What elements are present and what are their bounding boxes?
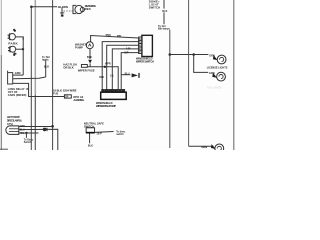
lamp L4 license light 1 (217, 55, 226, 64)
wire: dashed lead to marker lamp (64, 10, 73, 12)
svg-text:DIRECT. LAMPS &: DIRECT. LAMPS & (7, 118, 22, 122)
wire: riser elbow to connector block (13, 74, 23, 76)
lamp L2 park lamp upper-left (13, 29, 16, 32)
lamp L5 license light 2 (217, 72, 226, 81)
svg-text:BLK: BLK (87, 56, 92, 59)
svg-text:BLU: BLU (125, 72, 130, 75)
fuse F1 (81, 65, 87, 68)
svg-text:1B: 1B (26, 89, 29, 91)
svg-text:WIPER SWITCH: WIPER SWITCH (136, 59, 154, 63)
terminal arrow into fuse wire (88, 60, 92, 64)
arrow to washer pump circuit (132, 73, 138, 77)
wire: dome switch drop upper (163, 0, 165, 9)
wire: tail light riser (45, 60, 47, 77)
wire: top feed horizontal (31, 6, 57, 8)
lamp L1 marker lamp (75, 5, 83, 13)
wire: drop to lamp 2 (194, 55, 209, 73)
node: junction dot top feed (30, 6, 33, 9)
wire w3 short (19, 132, 39, 134)
wire: dome switch drop lower (163, 12, 165, 24)
wire: washer feed top with slope (91, 36, 139, 42)
wire: L2 to riser (15, 37, 23, 40)
wire: NSS to direc switch (95, 131, 114, 134)
wire: right riser R2 (188, 0, 190, 146)
wire w2 with splice blob and elbow down (19, 129, 58, 150)
svg-text:LICENSE LIGHTS: LICENSE LIGHTS (207, 66, 228, 69)
wire: gray harness vertical (34, 0, 36, 95)
wire: L3 to riser (16, 48, 24, 50)
pin4 wire (112, 49, 138, 90)
svg-text:LPS): LPS) (7, 122, 13, 126)
svg-text:BLK: BLK (99, 76, 104, 79)
splice S1: drop with cross (61, 7, 63, 14)
svg-text:PPL: PPL (117, 35, 122, 38)
pump connector body (101, 92, 127, 99)
node: dot fuse wire junction (104, 66, 106, 68)
svg-text:BLK: BLK (162, 10, 167, 13)
svg-text:YEL: YEL (20, 132, 25, 135)
left page border (0, 0, 2, 55)
connector bracket of marker lamp (73, 5, 76, 13)
wire w1 to bus B (19, 126, 53, 128)
pump connector pin row (102, 89, 105, 92)
pin boxes column (139, 37, 142, 40)
svg-text:BLK: BLK (44, 65, 49, 68)
svg-text:WIPER/WASH PUMP: WIPER/WASH PUMP (96, 104, 116, 108)
pin5 wire to washer arrow (121, 53, 139, 90)
lamp L6 bottom right (215, 144, 224, 153)
wiper switch pin wires: pin2 (102, 42, 139, 90)
node: dot at bus B (51, 125, 54, 128)
wire: riser from lamps down (22, 37, 24, 75)
svg-text:lights: lights (42, 58, 49, 61)
node: dot at second riser tee (192, 53, 195, 56)
wire: main vertical bus B (52, 0, 54, 150)
svg-text:RES: RES (85, 7, 91, 11)
svg-text:SWITCH: SWITCH (149, 5, 161, 9)
svg-text:OR BLK: OR BLK (63, 65, 73, 69)
svg-text:BLK: BLK (88, 144, 93, 147)
wire: R2 elbow to bottom lamp (189, 145, 214, 147)
svg-text:ALL MODEL: ALL MODEL (73, 98, 84, 102)
wire: motor down lead (89, 49, 91, 59)
wire: right riser R1 (169, 30, 171, 148)
right page border (233, 0, 235, 150)
svg-text:TAIL LIGHTS: TAIL LIGHTS (207, 86, 222, 89)
svg-text:WIPER FUSE: WIPER FUSE (78, 68, 95, 72)
svg-text:PARK: PARK (8, 41, 18, 45)
svg-text:PUMP: PUMP (75, 45, 83, 49)
lamp L3 park lamp lower-left (10, 46, 16, 52)
motor M1 washer pump (86, 42, 93, 49)
svg-text:Blk-lamps: Blk-lamps (158, 28, 171, 31)
wire: main vertical bus A (30, 7, 32, 150)
svg-text:switch: switch (116, 133, 124, 136)
splice mark under L3 (13, 52, 16, 56)
wiper switch U1 body (142, 35, 153, 56)
connector C2 left front lamps (6, 126, 19, 134)
node: dot on w3 (25, 132, 27, 134)
svg-text:PNK: PNK (106, 34, 111, 37)
svg-text:14L: 14L (110, 75, 115, 78)
wire: block lower wire to tail riser (13, 77, 46, 79)
svg-text:LEFT FRONT: LEFT FRONT (7, 115, 20, 119)
svg-text:WPR: WPR (105, 62, 111, 65)
svg-text:1B P: 1B P (96, 132, 102, 135)
node: junction dot on riser (22, 48, 24, 50)
svg-text:S4: S4 (65, 95, 69, 99)
svg-text:GRN: GRN (201, 145, 207, 149)
svg-text:14B: 14B (126, 47, 131, 50)
connector block J1 left (8, 73, 13, 84)
wire: NSS down lead (89, 134, 91, 144)
pin3 wire (107, 45, 139, 89)
svg-text:18P: 18P (124, 51, 129, 54)
wire: drop from w3 dot (25, 133, 27, 138)
wire: license feed horizontal (170, 54, 209, 56)
node: dot R1 tee (169, 53, 172, 56)
neutral safety switch box (86, 128, 95, 133)
svg-text:FUS: FUS (53, 92, 58, 96)
splice box S204 (64, 95, 71, 98)
svg-text:1B BRN: 1B BRN (58, 5, 68, 9)
wire: fuse to switch riser (87, 67, 118, 90)
bottom-left page border stub (0, 148, 8, 150)
wire: drop B from block wire (13, 83, 65, 96)
svg-text:Switch: Switch (24, 141, 32, 144)
svg-text:.GRN: .GRN (14, 72, 20, 75)
svg-text:CARS (REFER): CARS (REFER) (8, 93, 27, 97)
splice blob on w2 (43, 128, 47, 132)
